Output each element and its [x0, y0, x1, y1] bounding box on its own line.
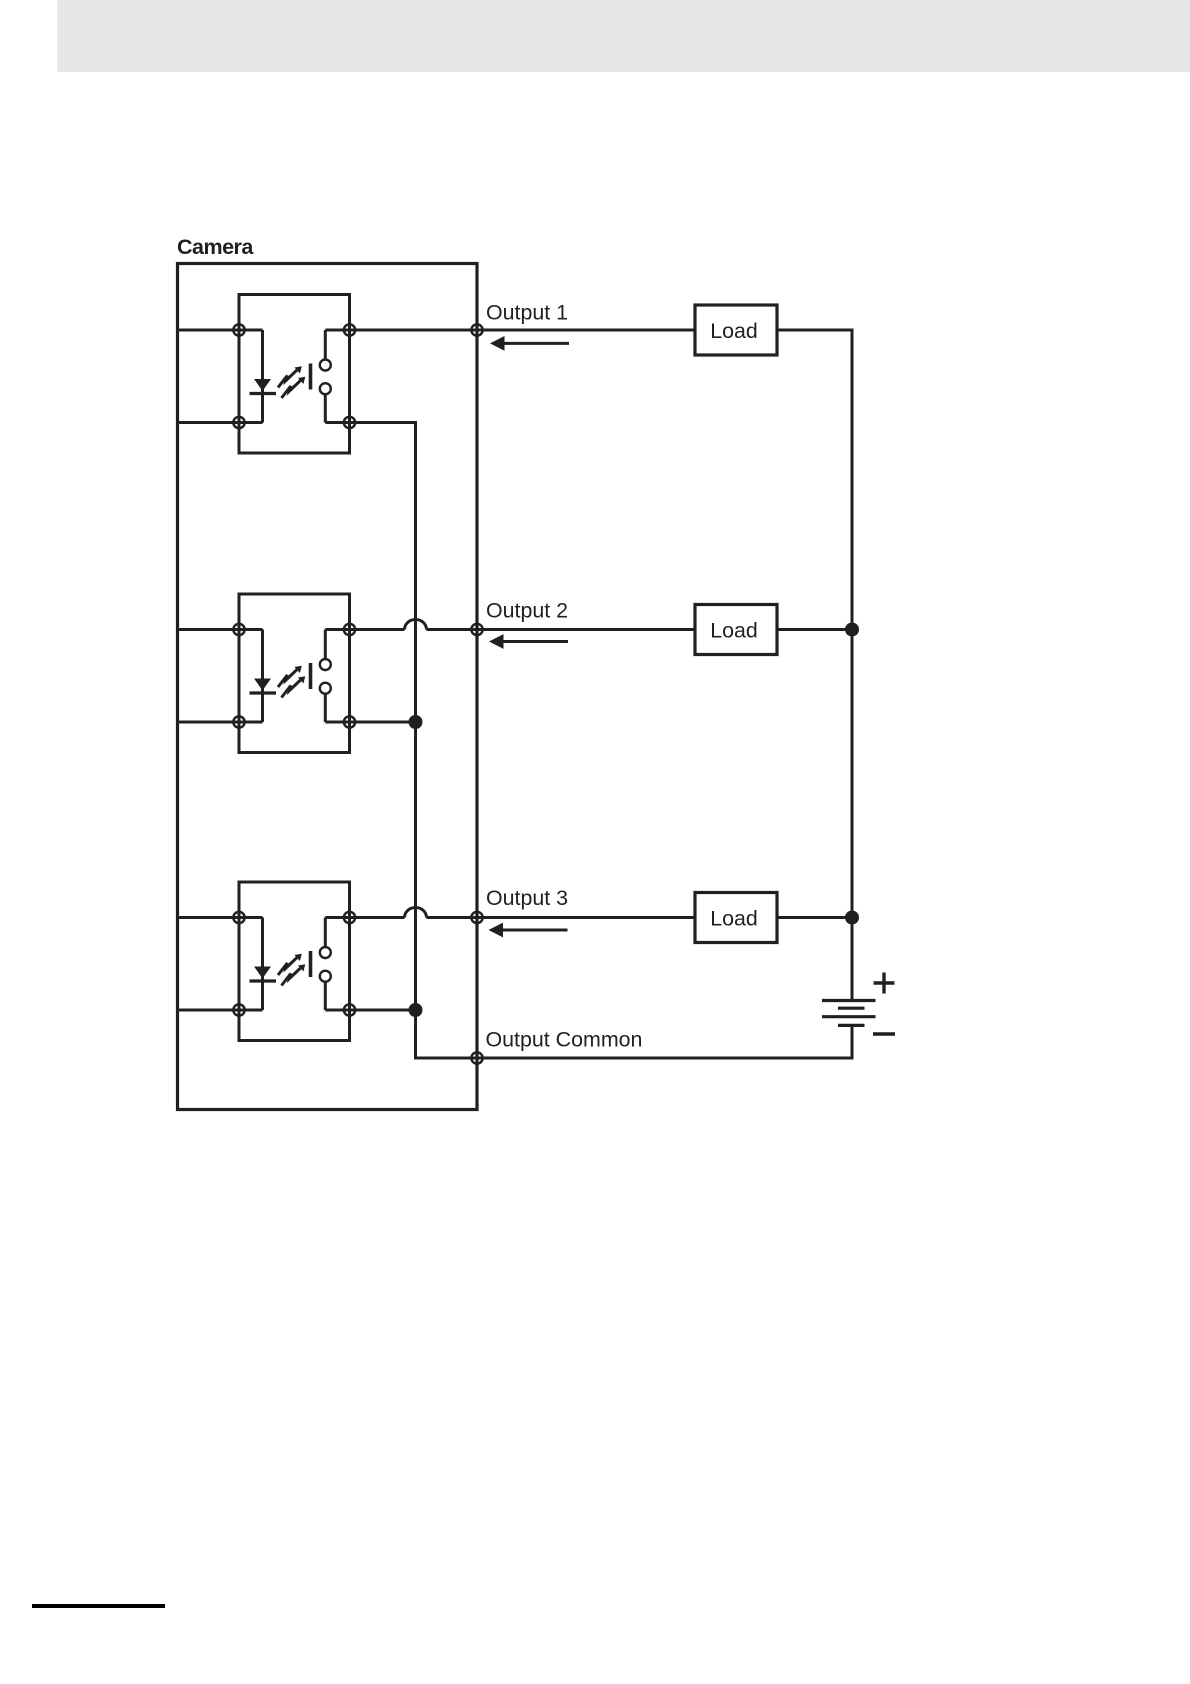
svg-text:Output 3: Output 3	[486, 886, 568, 910]
svg-text:Camera: Camera	[177, 235, 254, 259]
svg-text:Output Common: Output Common	[486, 1027, 643, 1051]
svg-text:Output 1: Output 1	[486, 300, 568, 324]
svg-text:Output 2: Output 2	[486, 598, 568, 622]
